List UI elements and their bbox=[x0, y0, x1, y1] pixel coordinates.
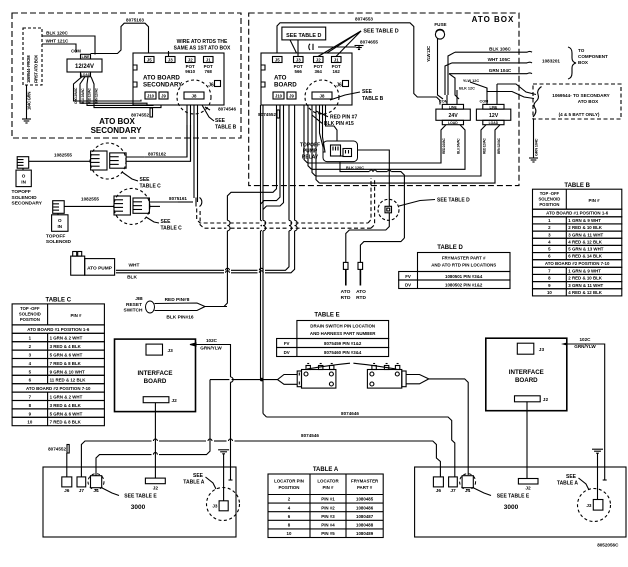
svg-text:SEE TABLE D: SEE TABLE D bbox=[363, 29, 398, 35]
svg-text:3000: 3000 bbox=[504, 504, 519, 511]
svg-text:PIN #: PIN # bbox=[323, 485, 335, 490]
svg-text:8074546: 8074546 bbox=[301, 433, 319, 438]
svg-text:PIN #: PIN # bbox=[71, 313, 83, 318]
svg-text:BOARD: BOARD bbox=[144, 378, 167, 385]
svg-text:ORG 24VAC: ORG 24VAC bbox=[74, 87, 78, 104]
svg-text:1082555: 1082555 bbox=[81, 196, 99, 201]
svg-text:PIN #4: PIN #4 bbox=[321, 523, 335, 528]
svg-text:PIN #3: PIN #3 bbox=[321, 514, 335, 519]
svg-text:9610: 9610 bbox=[185, 69, 195, 74]
svg-text:LOAD: LOAD bbox=[448, 121, 458, 125]
svg-text:PIN #5: PIN #5 bbox=[321, 531, 335, 536]
svg-text:SEE: SEE bbox=[161, 219, 172, 225]
svg-text:SEE: SEE bbox=[215, 118, 226, 124]
svg-text:1080486: 1080486 bbox=[356, 505, 374, 510]
svg-text:TABLE B: TABLE B bbox=[564, 183, 590, 189]
svg-text:SOLENOID: SOLENOID bbox=[19, 311, 41, 316]
svg-text:J6: J6 bbox=[436, 488, 442, 494]
svg-text:1080488: 1080488 bbox=[356, 523, 374, 528]
svg-text:WHT 121C: WHT 121C bbox=[46, 39, 69, 44]
svg-text:8074546: 8074546 bbox=[218, 107, 236, 112]
svg-text:RESET: RESET bbox=[126, 302, 142, 308]
svg-text:POSITION: POSITION bbox=[279, 485, 300, 490]
svg-text:RED PIN #7: RED PIN #7 bbox=[330, 114, 357, 120]
svg-text:24V: 24V bbox=[448, 113, 458, 119]
svg-text:WHT 105C: WHT 105C bbox=[488, 57, 511, 62]
svg-text:TOP -OFF: TOP -OFF bbox=[20, 306, 40, 311]
svg-text:FUSE: FUSE bbox=[434, 22, 446, 27]
svg-text:768: 768 bbox=[205, 69, 213, 74]
svg-text:COM: COM bbox=[71, 49, 81, 54]
svg-text:FRYMASTER PART #: FRYMASTER PART # bbox=[442, 256, 486, 261]
svg-text:TABLE C: TABLE C bbox=[161, 226, 183, 232]
svg-text:ATO BOARD #1 POSITION 1-6: ATO BOARD #1 POSITION 1-6 bbox=[546, 211, 609, 216]
svg-text:PIN #2: PIN #2 bbox=[321, 505, 335, 510]
svg-text:GRN 104C: GRN 104C bbox=[489, 68, 512, 73]
svg-text:12/24V: 12/24V bbox=[75, 64, 94, 70]
svg-text:2 RED & 10 BLK: 2 RED & 10 BLK bbox=[568, 225, 602, 230]
svg-text:1080502 PIN #1&2: 1080502 PIN #1&2 bbox=[445, 283, 483, 288]
svg-text:BLU 24VAC: BLU 24VAC bbox=[81, 88, 85, 104]
svg-text:J7: J7 bbox=[79, 488, 85, 494]
svg-text:DV: DV bbox=[284, 350, 290, 355]
svg-text:J10: J10 bbox=[147, 94, 155, 99]
svg-text:2 RED & 10 BLK: 2 RED & 10 BLK bbox=[568, 276, 602, 281]
svg-text:SAME AS 1ST ATO BOX: SAME AS 1ST ATO BOX bbox=[174, 46, 231, 52]
svg-text:BRN 12VAC: BRN 12VAC bbox=[94, 87, 98, 104]
svg-text:BLK 120C: BLK 120C bbox=[46, 31, 68, 36]
svg-text:7 RED & 8 BLK: 7 RED & 8 BLK bbox=[50, 361, 82, 366]
svg-text:J8: J8 bbox=[320, 94, 325, 99]
svg-text:ATO BOARD: ATO BOARD bbox=[143, 75, 180, 82]
svg-text:SECONDARY: SECONDARY bbox=[12, 201, 43, 207]
svg-text:1080487: 1080487 bbox=[356, 514, 374, 519]
svg-text:GRN 104C: GRN 104C bbox=[534, 138, 539, 156]
svg-text:J6: J6 bbox=[336, 83, 342, 89]
svg-text:4 RED & 12 BLK: 4 RED & 12 BLK bbox=[568, 239, 602, 244]
svg-text:LOAD: LOAD bbox=[489, 121, 499, 125]
svg-text:O: O bbox=[58, 218, 62, 223]
svg-text:1 GRN & 9 WHT: 1 GRN & 9 WHT bbox=[568, 268, 601, 273]
svg-text:SECONDARY: SECONDARY bbox=[91, 126, 142, 135]
svg-text:GRN/YLW: GRN/YLW bbox=[200, 346, 222, 351]
svg-text:J4: J4 bbox=[465, 488, 471, 494]
svg-text:AND ATO RTD PIN LOCATIONS: AND ATO RTD PIN LOCATIONS bbox=[431, 263, 496, 268]
svg-text:1 GRN & 9 WHT: 1 GRN & 9 WHT bbox=[568, 218, 601, 223]
svg-text:J9: J9 bbox=[161, 94, 166, 99]
svg-text:AND HARNESS PART NUMBER: AND HARNESS PART NUMBER bbox=[310, 331, 376, 336]
svg-text:RED 12VAC: RED 12VAC bbox=[88, 88, 92, 104]
svg-text:8074553: 8074553 bbox=[355, 17, 373, 22]
svg-text:RED 12VAC: RED 12VAC bbox=[483, 138, 487, 154]
svg-text:J3: J3 bbox=[168, 57, 173, 62]
svg-text:TABLE A: TABLE A bbox=[183, 480, 204, 486]
svg-text:J2: J2 bbox=[316, 57, 321, 62]
svg-text:SEE: SEE bbox=[193, 473, 204, 479]
svg-text:J3: J3 bbox=[539, 347, 545, 353]
svg-text:1083201: 1083201 bbox=[542, 59, 560, 64]
svg-text:5 GRN & 6 WHT: 5 GRN & 6 WHT bbox=[50, 411, 83, 416]
svg-text:TABLE D: TABLE D bbox=[437, 245, 463, 251]
svg-text:RTD: RTD bbox=[341, 295, 351, 301]
svg-text:RELAY: RELAY bbox=[302, 155, 319, 161]
svg-text:1069544- TO SECONDARY: 1069544- TO SECONDARY bbox=[552, 93, 609, 98]
svg-text:TOPOFF: TOPOFF bbox=[46, 233, 65, 239]
svg-text:YLW 13C: YLW 13C bbox=[426, 46, 431, 62]
svg-text:12V: 12V bbox=[489, 113, 499, 119]
svg-text:LOCATOR PIN: LOCATOR PIN bbox=[274, 479, 304, 484]
svg-text:8074552: 8074552 bbox=[131, 113, 149, 118]
svg-text:J4: J4 bbox=[93, 488, 99, 494]
svg-text:J10: J10 bbox=[275, 94, 283, 99]
svg-text:COMPONENT: COMPONENT bbox=[578, 54, 608, 59]
svg-text:J9: J9 bbox=[289, 94, 294, 99]
svg-text:INTERFACE: INTERFACE bbox=[137, 370, 172, 377]
svg-text:LINE: LINE bbox=[82, 55, 90, 59]
svg-text:8075163: 8075163 bbox=[126, 18, 144, 23]
svg-text:BOARD: BOARD bbox=[515, 377, 538, 384]
svg-text:O: O bbox=[22, 174, 26, 179]
svg-text:SEE TABLE E: SEE TABLE E bbox=[124, 494, 157, 500]
svg-text:J5: J5 bbox=[275, 57, 280, 62]
svg-text:BLK 120C: BLK 120C bbox=[346, 166, 364, 170]
svg-text:INTERFACE: INTERFACE bbox=[509, 369, 544, 376]
svg-text:RED PIN#8: RED PIN#8 bbox=[165, 297, 190, 303]
svg-text:8052056C: 8052056C bbox=[597, 543, 619, 548]
svg-text:ATO BOX: ATO BOX bbox=[99, 117, 135, 126]
svg-text:J2: J2 bbox=[188, 57, 193, 62]
svg-text:8075162: 8075162 bbox=[148, 152, 166, 157]
svg-text:TABLE B: TABLE B bbox=[362, 96, 384, 102]
svg-text:3 GRN & 11 WHT: 3 GRN & 11 WHT bbox=[568, 232, 603, 237]
svg-text:1080485: 1080485 bbox=[356, 497, 374, 502]
svg-text:566: 566 bbox=[295, 69, 303, 74]
svg-text:PIN #1: PIN #1 bbox=[321, 497, 335, 502]
svg-text:RTD: RTD bbox=[356, 295, 366, 301]
svg-text:7 RED & 8 BLK: 7 RED & 8 BLK bbox=[50, 420, 82, 425]
svg-text:9 GRN & 10 WHT: 9 GRN & 10 WHT bbox=[50, 369, 85, 374]
svg-text:SOLENOID: SOLENOID bbox=[12, 195, 38, 201]
svg-text:(4 & 5 BATT ONLY): (4 & 5 BATT ONLY) bbox=[559, 112, 600, 117]
svg-text:DRAIN SWITCH PIN LOCATION: DRAIN SWITCH PIN LOCATION bbox=[310, 324, 375, 329]
svg-text:162: 162 bbox=[333, 69, 341, 74]
svg-text:8075460 PIN #3&4: 8075460 PIN #3&4 bbox=[324, 350, 362, 355]
svg-text:SEE: SEE bbox=[566, 474, 577, 480]
svg-text:10: 10 bbox=[547, 290, 552, 295]
svg-text:SOLENOID: SOLENOID bbox=[46, 239, 72, 245]
svg-text:3000: 3000 bbox=[131, 504, 146, 511]
svg-text:J3: J3 bbox=[212, 504, 218, 509]
svg-text:J3: J3 bbox=[168, 348, 174, 354]
svg-text:ATO BOARD #1 POSITION 1-6: ATO BOARD #1 POSITION 1-6 bbox=[27, 327, 90, 332]
svg-text:4 RED & 12 BLK: 4 RED & 12 BLK bbox=[568, 290, 602, 295]
svg-text:FIRST ATO BOX: FIRST ATO BOX bbox=[34, 55, 39, 83]
svg-text:ATO: ATO bbox=[356, 289, 366, 295]
svg-text:SOLENOID: SOLENOID bbox=[538, 197, 560, 202]
svg-text:11 RED & 12 BLK: 11 RED & 12 BLK bbox=[50, 378, 87, 383]
svg-text:J1: J1 bbox=[206, 57, 211, 62]
svg-text:102C: 102C bbox=[580, 337, 592, 342]
svg-text:TABLE A: TABLE A bbox=[313, 467, 339, 473]
svg-text:POSITION: POSITION bbox=[20, 317, 40, 322]
svg-text:POSITION: POSITION bbox=[539, 202, 559, 207]
svg-text:TABLE A: TABLE A bbox=[557, 481, 578, 487]
svg-text:LINE: LINE bbox=[490, 105, 498, 109]
svg-text:ATO: ATO bbox=[274, 75, 287, 82]
svg-text:SEE: SEE bbox=[362, 89, 373, 95]
svg-text:BLK PIN#16: BLK PIN#16 bbox=[166, 314, 194, 320]
svg-text:TABLE C: TABLE C bbox=[140, 184, 162, 190]
svg-text:SECONDARY: SECONDARY bbox=[143, 82, 183, 89]
svg-text:102C: 102C bbox=[206, 338, 218, 343]
svg-text:1 GRN & 2 WHT: 1 GRN & 2 WHT bbox=[50, 336, 83, 341]
svg-text:8074552: 8074552 bbox=[48, 446, 66, 451]
svg-text:3 GRN & 11 WHT: 3 GRN & 11 WHT bbox=[568, 283, 603, 288]
svg-text:J3: J3 bbox=[296, 57, 301, 62]
svg-text:J6: J6 bbox=[64, 488, 70, 494]
svg-text:J8: J8 bbox=[192, 94, 197, 99]
svg-text:1080501 PIN #3&4: 1080501 PIN #3&4 bbox=[445, 274, 483, 279]
svg-text:BOX: BOX bbox=[578, 60, 589, 65]
svg-text:10: 10 bbox=[27, 420, 32, 425]
svg-text:TABLE B: TABLE B bbox=[215, 125, 237, 131]
svg-text:RED 24VAC: RED 24VAC bbox=[442, 138, 446, 154]
svg-text:364: 364 bbox=[315, 69, 323, 74]
svg-text:J1: J1 bbox=[334, 57, 339, 62]
svg-text:J2: J2 bbox=[525, 486, 531, 492]
svg-text:SWITCH: SWITCH bbox=[124, 308, 143, 314]
svg-text:LOCATOR: LOCATOR bbox=[317, 479, 339, 484]
svg-text:IN: IN bbox=[21, 180, 26, 185]
svg-text:J7: J7 bbox=[450, 488, 456, 494]
svg-text:SEE: SEE bbox=[140, 177, 151, 183]
svg-text:5 GRN & 13 WHT: 5 GRN & 13 WHT bbox=[568, 247, 603, 252]
svg-text:ATO BOARD #2 POSITION 7-10: ATO BOARD #2 POSITION 7-10 bbox=[26, 386, 91, 391]
svg-text:1 GRN & 2 WHT: 1 GRN & 2 WHT bbox=[50, 395, 83, 400]
svg-text:SEE TABLE E: SEE TABLE E bbox=[497, 494, 530, 500]
svg-text:3 RED & 4 BLK: 3 RED & 4 BLK bbox=[50, 403, 82, 408]
svg-text:8074646: 8074646 bbox=[341, 411, 359, 416]
svg-text:J3: J3 bbox=[586, 503, 592, 508]
svg-text:PIN #: PIN # bbox=[589, 198, 601, 203]
svg-text:ATO BOX: ATO BOX bbox=[578, 99, 599, 104]
svg-text:J6: J6 bbox=[208, 83, 214, 89]
svg-text:SEE TABLE D: SEE TABLE D bbox=[286, 33, 321, 39]
svg-text:WIRE ATO RTDS THE: WIRE ATO RTDS THE bbox=[177, 39, 228, 45]
svg-text:3 RED & 4 BLK: 3 RED & 4 BLK bbox=[50, 344, 82, 349]
svg-text:J2: J2 bbox=[153, 486, 159, 492]
svg-text:BLK 106C: BLK 106C bbox=[489, 47, 511, 52]
svg-text:BLK 12C: BLK 12C bbox=[459, 86, 475, 90]
svg-text:LOAD: LOAD bbox=[81, 73, 91, 77]
svg-text:BRN 12VAC: BRN 12VAC bbox=[497, 137, 501, 154]
svg-text:J5: J5 bbox=[147, 57, 152, 62]
svg-text:BOARD: BOARD bbox=[274, 82, 297, 89]
svg-text:J2: J2 bbox=[543, 397, 549, 403]
svg-text:104C GRN: 104C GRN bbox=[27, 92, 32, 110]
svg-text:ATO BOARD #2 POSITION 7-10: ATO BOARD #2 POSITION 7-10 bbox=[545, 261, 610, 266]
svg-text:ATO PUMP: ATO PUMP bbox=[87, 266, 113, 272]
svg-text:GRN/YLW: GRN/YLW bbox=[574, 344, 596, 349]
svg-text:TABLE C: TABLE C bbox=[45, 298, 71, 304]
svg-text:1080489: 1080489 bbox=[356, 531, 374, 536]
svg-text:6 RED & 14 BLK: 6 RED & 14 BLK bbox=[568, 254, 602, 259]
svg-text:TABLE E: TABLE E bbox=[314, 313, 339, 319]
svg-text:10: 10 bbox=[287, 531, 292, 536]
svg-text:ATO BOX: ATO BOX bbox=[472, 15, 515, 24]
svg-text:YLW 12C: YLW 12C bbox=[463, 79, 480, 83]
svg-text:1082555: 1082555 bbox=[54, 153, 72, 158]
svg-text:FV: FV bbox=[284, 341, 290, 346]
svg-text:TOP -OFF: TOP -OFF bbox=[540, 191, 560, 196]
svg-text:5 GRN & 6 WHT: 5 GRN & 6 WHT bbox=[50, 353, 83, 358]
svg-text:BLK: BLK bbox=[127, 275, 137, 281]
svg-text:J2: J2 bbox=[172, 398, 178, 404]
svg-text:8074655: 8074655 bbox=[360, 40, 378, 45]
svg-text:ATO: ATO bbox=[341, 289, 351, 295]
svg-text:JIB: JIB bbox=[135, 296, 143, 302]
svg-text:TO: TO bbox=[578, 48, 585, 53]
svg-text:DV: DV bbox=[405, 283, 411, 288]
svg-text:FV: FV bbox=[405, 274, 411, 279]
svg-text:BLU 24VAC: BLU 24VAC bbox=[457, 138, 461, 154]
svg-text:TOPOFF: TOPOFF bbox=[12, 189, 31, 195]
svg-text:8075161: 8075161 bbox=[169, 196, 187, 201]
svg-text:LINE: LINE bbox=[449, 105, 457, 109]
svg-text:IN: IN bbox=[58, 224, 63, 229]
svg-text:1069544- FROM: 1069544- FROM bbox=[26, 55, 31, 83]
svg-text:WHT: WHT bbox=[129, 263, 140, 269]
svg-text:SEE TABLE D: SEE TABLE D bbox=[437, 198, 470, 204]
svg-text:PART #: PART # bbox=[357, 485, 373, 490]
svg-text:8075459 PIN #1&2: 8075459 PIN #1&2 bbox=[324, 341, 362, 346]
svg-text:FRYMASTER: FRYMASTER bbox=[351, 479, 379, 484]
